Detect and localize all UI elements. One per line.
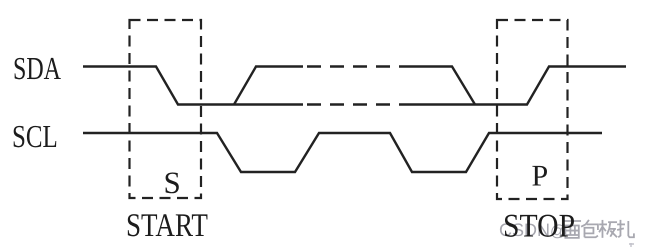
svg-text:S: S: [164, 165, 181, 200]
svg-text:SDA: SDA: [13, 50, 61, 86]
svg-text:START: START: [126, 208, 208, 244]
svg-text:SCL: SCL: [12, 118, 58, 154]
svg-text:P: P: [532, 160, 549, 193]
svg-text:STOP: STOP: [503, 209, 575, 245]
